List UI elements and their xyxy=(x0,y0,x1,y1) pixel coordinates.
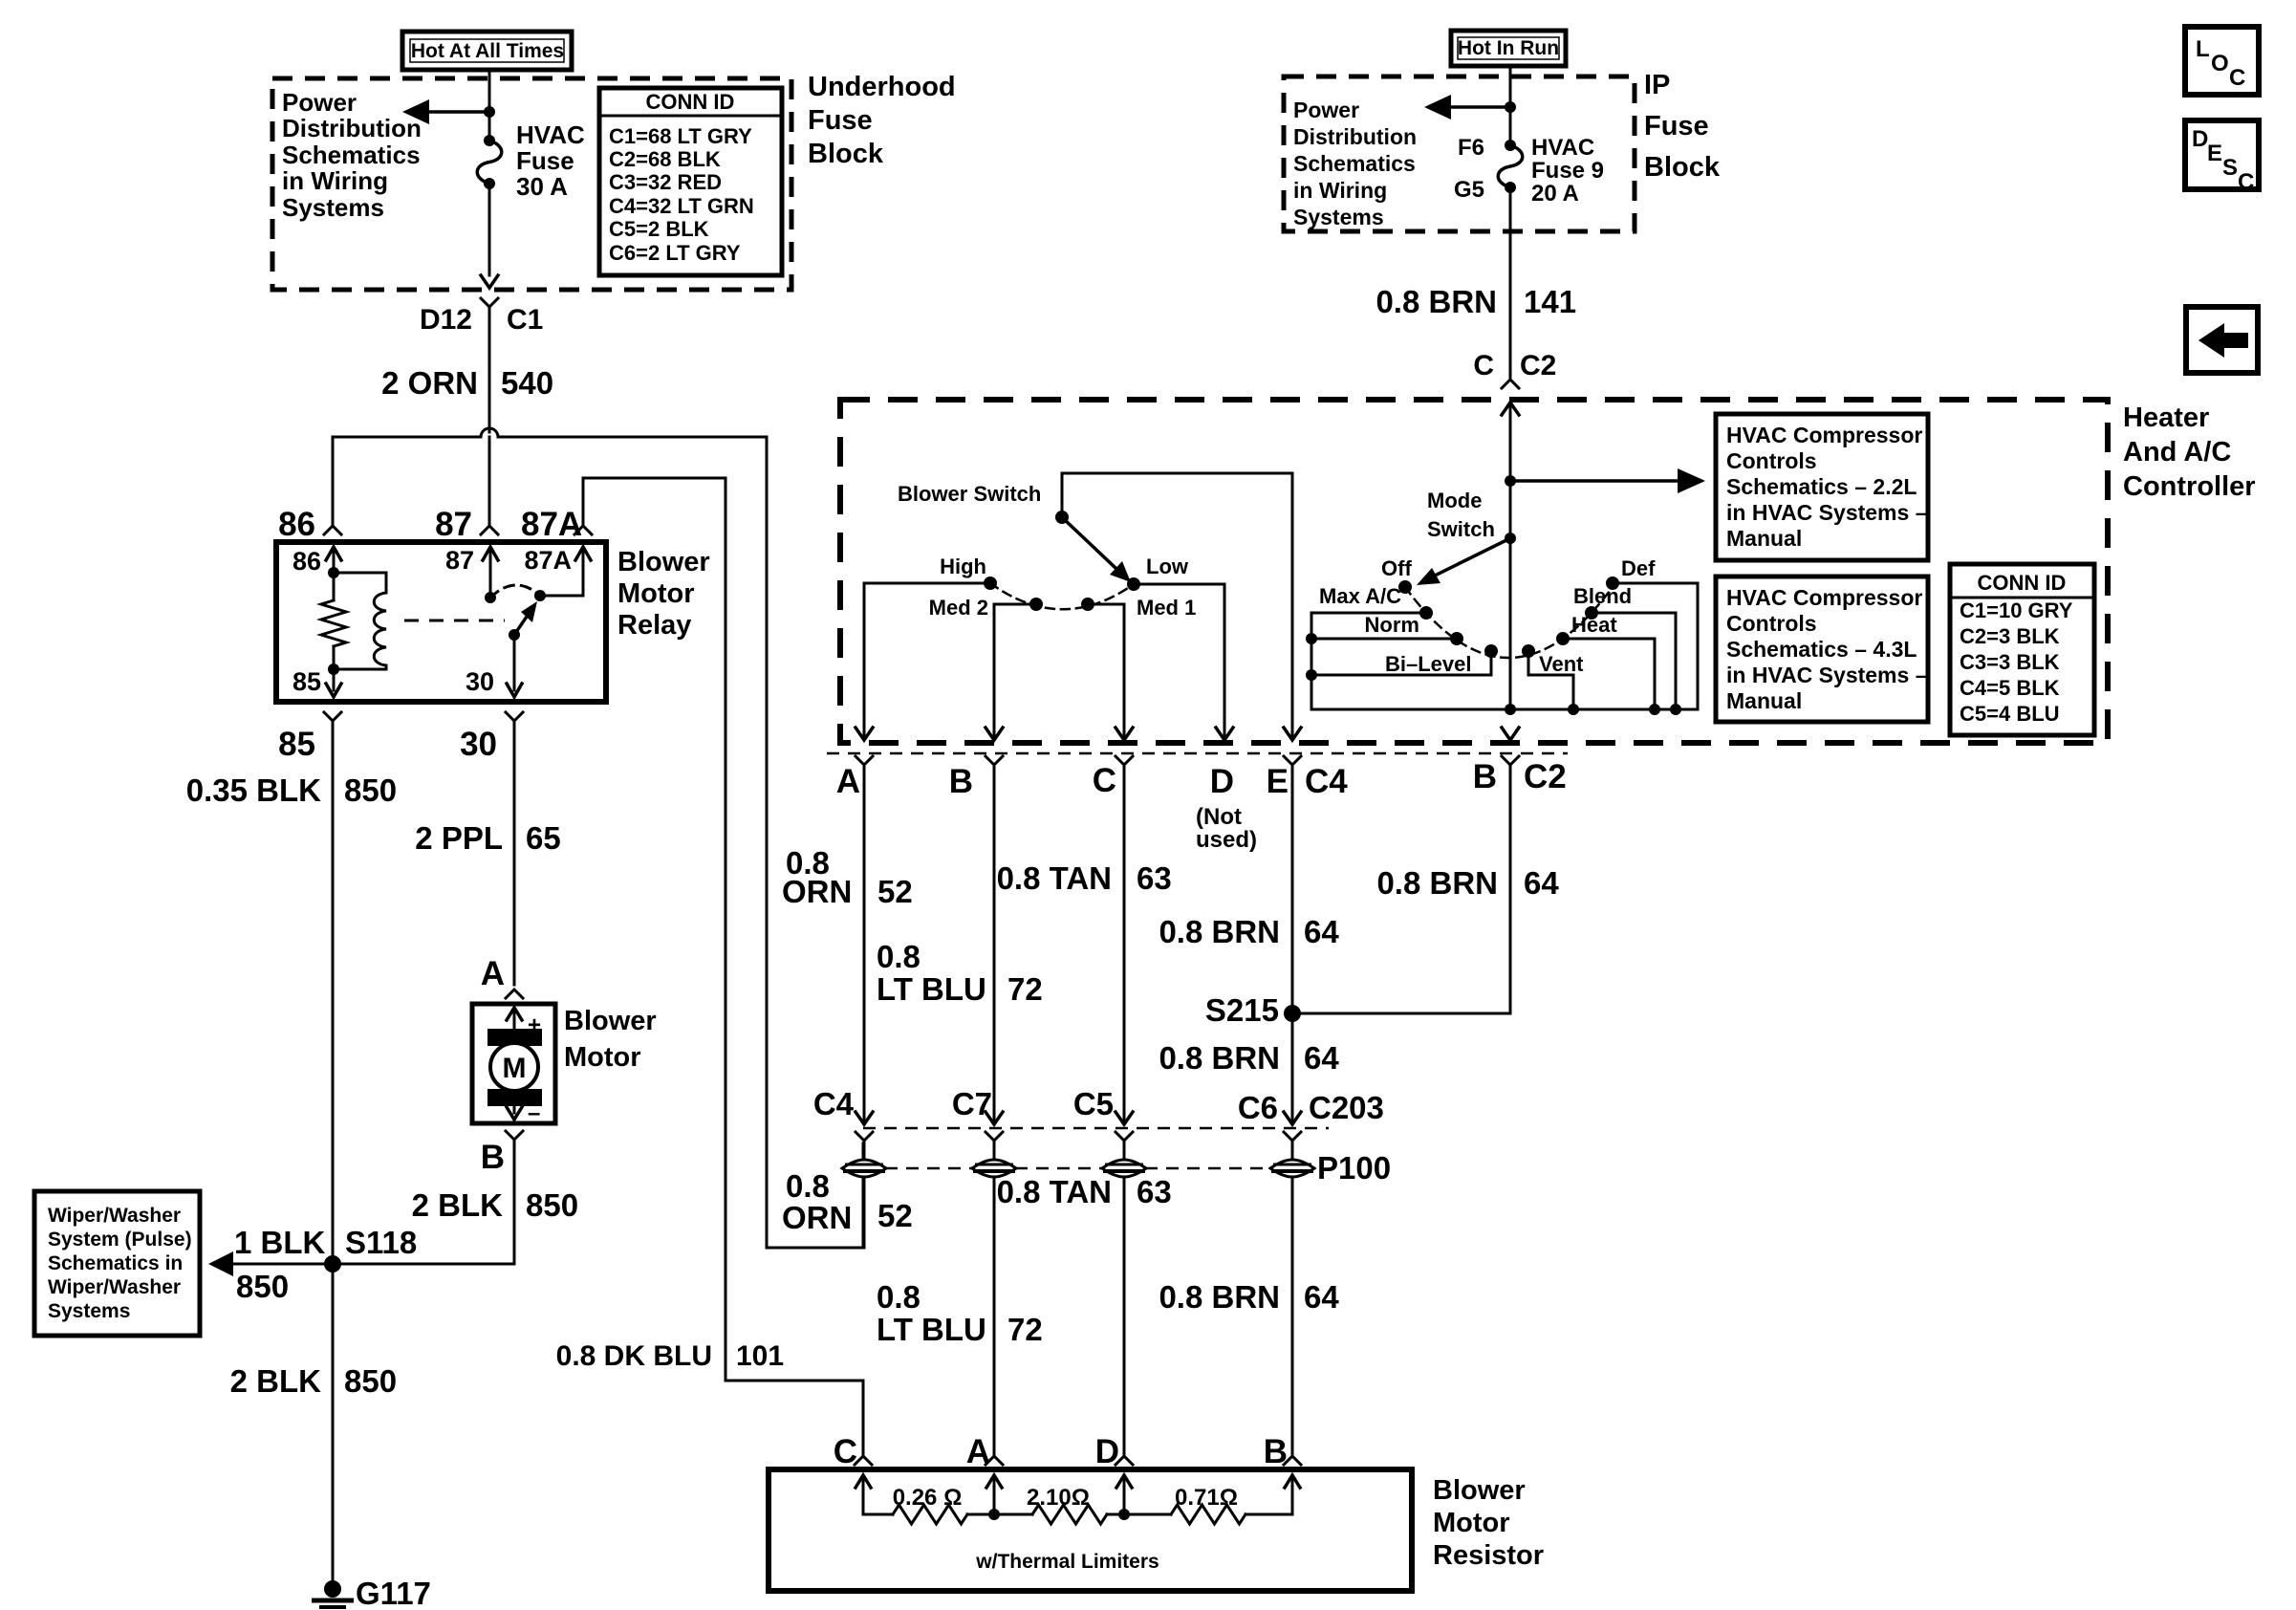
svg-text:Power: Power xyxy=(282,88,357,117)
svg-text:in HVAC Systems –: in HVAC Systems – xyxy=(1726,663,1928,687)
svg-text:M: M xyxy=(503,1053,527,1084)
junction Heat xyxy=(1649,704,1660,715)
svg-text:P100: P100 xyxy=(1317,1150,1391,1186)
svg-text:87: 87 xyxy=(435,506,472,543)
wire 87A contact to pin xyxy=(540,551,583,596)
svg-text:101: 101 xyxy=(736,1340,784,1372)
svg-text:Fuse: Fuse xyxy=(1644,111,1709,141)
svg-text:Bi–Level: Bi–Level xyxy=(1385,652,1472,676)
svg-text:C2=68 BLK: C2=68 BLK xyxy=(609,147,721,171)
wire Blend xyxy=(1592,613,1676,709)
wire TAN to resistor D xyxy=(1123,1177,1126,1457)
svg-text:B: B xyxy=(949,763,973,800)
svg-text:C2: C2 xyxy=(1520,350,1556,381)
svg-text:S118: S118 xyxy=(345,1225,417,1260)
connector pin B xyxy=(986,756,1003,765)
svg-text:30: 30 xyxy=(460,726,497,763)
connector row C4 (thin dashed) xyxy=(827,752,1568,755)
svg-text:in Wiring: in Wiring xyxy=(282,166,388,195)
wire 2 PPL 65 xyxy=(513,721,516,985)
wire DK BLU to resistor pin C xyxy=(726,1381,863,1457)
svg-text:B: B xyxy=(1264,1433,1288,1470)
label box "Hot At All Times" xyxy=(402,32,572,70)
contact Off xyxy=(1398,580,1412,594)
junction xyxy=(1306,669,1317,681)
svg-text:0.8 BRN: 0.8 BRN xyxy=(1159,1279,1280,1315)
junction Blend xyxy=(1670,704,1681,715)
table CONN ID (controller) xyxy=(1950,564,2094,735)
svg-text:E: E xyxy=(1267,763,1289,800)
svg-text:0.26 Ω: 0.26 Ω xyxy=(893,1485,963,1511)
svg-text:S: S xyxy=(2222,155,2238,181)
svg-text:Motor: Motor xyxy=(564,1042,641,1073)
svg-text:D: D xyxy=(1095,1433,1119,1470)
wire Norm xyxy=(1311,638,1457,641)
arrowhead at controller edge (B C2) xyxy=(1502,728,1519,740)
arrow to power distribution (IP) xyxy=(1424,95,1510,120)
svg-text:Resistor: Resistor xyxy=(1433,1540,1544,1571)
svg-text:63: 63 xyxy=(1137,1174,1172,1209)
connector at relay pin 87A xyxy=(574,526,592,534)
svg-text:in HVAC Systems –: in HVAC Systems – xyxy=(1726,500,1928,525)
svg-text:And A/C: And A/C xyxy=(2123,437,2231,468)
wire ORN U bottom xyxy=(767,1247,863,1250)
wire 2 BLK 850 to ground xyxy=(332,1264,335,1580)
dashed actuation link xyxy=(404,620,505,622)
svg-text:D12: D12 xyxy=(420,304,472,336)
svg-text:0.8 BRN: 0.8 BRN xyxy=(1375,284,1497,319)
note box HVAC Compressor Controls 4.3L xyxy=(1716,577,1928,722)
svg-text:Distribution: Distribution xyxy=(1293,124,1417,149)
wire BRN to resistor B xyxy=(1291,1177,1294,1457)
svg-text:2 ORN: 2 ORN xyxy=(381,365,478,401)
svg-text:HVAC Compressor: HVAC Compressor xyxy=(1726,423,1922,447)
junction bus to C2 xyxy=(1505,704,1516,715)
wire feed to pin E xyxy=(1291,473,1294,736)
svg-text:Wiper/Washer: Wiper/Washer xyxy=(48,1205,181,1227)
label Blower Motor Resistor xyxy=(1433,1475,1544,1571)
relay switch blade xyxy=(514,601,537,635)
wire 0.8 TAN 63 xyxy=(1123,765,1126,1120)
svg-text:85: 85 xyxy=(292,667,321,696)
IP fuse block (dashed box) xyxy=(1284,76,1635,231)
resistor element 0.26 ohm xyxy=(863,1505,994,1524)
svg-text:Distribution: Distribution xyxy=(282,114,422,142)
svg-text:Blower: Blower xyxy=(1433,1475,1526,1506)
connector at resistor pin A xyxy=(986,1456,1003,1465)
junction coil bottom xyxy=(328,664,339,675)
wire 1 BLK 850 with arrow to wiper system xyxy=(208,1251,333,1276)
svg-text:Vent: Vent xyxy=(1539,652,1584,676)
svg-text:540: 540 xyxy=(501,365,553,401)
contact High xyxy=(984,577,997,590)
svg-text:C3=32 RED: C3=32 RED xyxy=(609,170,722,194)
svg-text:C3=3 BLK: C3=3 BLK xyxy=(1960,650,2060,674)
connector C5 xyxy=(1116,1112,1133,1141)
wire switch feed top xyxy=(1062,472,1292,475)
junction pin A xyxy=(988,1509,1000,1520)
connector C6 / C203 xyxy=(1284,1112,1301,1141)
svg-text:D: D xyxy=(1210,763,1234,800)
svg-text:Fuse: Fuse xyxy=(516,146,574,175)
connector at resistor pin C xyxy=(855,1456,872,1465)
wire to fuse xyxy=(488,112,491,141)
contact Def xyxy=(1606,577,1619,590)
svg-text:C: C xyxy=(2238,169,2254,195)
wire ORN to U xyxy=(863,1177,866,1248)
svg-text:0.8 TAN: 0.8 TAN xyxy=(997,860,1112,896)
contact Norm xyxy=(1450,632,1463,645)
svg-text:Schematics in: Schematics in xyxy=(48,1252,183,1274)
svg-text:Off: Off xyxy=(1381,556,1412,580)
svg-text:CONN ID: CONN ID xyxy=(646,90,735,114)
svg-text:0.8 BRN: 0.8 BRN xyxy=(1376,865,1498,901)
relay box Blower Motor Relay xyxy=(276,542,606,702)
contact Med 1 xyxy=(1081,598,1094,611)
wire ORN down right branch xyxy=(766,437,769,1248)
mode switch contact arc (dashed) xyxy=(1405,587,1613,658)
wire rail to relay pin 86 xyxy=(332,437,335,525)
relay pin 85 internal xyxy=(326,669,341,697)
underhood fuse block (dashed box) xyxy=(272,78,791,290)
junction xyxy=(1306,633,1317,644)
svg-text:2 PPL: 2 PPL xyxy=(415,820,503,856)
svg-text:52: 52 xyxy=(877,1198,913,1233)
wire to fuse 9 xyxy=(1509,107,1512,145)
svg-text:86: 86 xyxy=(292,547,321,576)
svg-text:2 BLK: 2 BLK xyxy=(412,1187,504,1223)
svg-text:0.8 TAN: 0.8 TAN xyxy=(997,1174,1112,1209)
contact Low xyxy=(1127,577,1140,591)
wire S215 jumper xyxy=(1292,1012,1510,1015)
connector at relay pin 30 xyxy=(506,712,523,721)
svg-text:Schematics – 2.2L: Schematics – 2.2L xyxy=(1726,474,1917,499)
svg-text:C: C xyxy=(1093,762,1116,799)
wire High to pin A xyxy=(864,583,990,736)
wire to P100 xyxy=(863,1141,866,1160)
nav box DESC xyxy=(2185,120,2259,195)
svg-text:Schematics – 4.3L: Schematics – 4.3L xyxy=(1726,637,1917,662)
svg-text:0.35 BLK: 0.35 BLK xyxy=(186,772,321,808)
svg-text:20 A: 20 A xyxy=(1531,181,1579,207)
connector row C203 (thin dashed) xyxy=(863,1127,1329,1130)
wire Max A/C xyxy=(1311,612,1426,615)
svg-text:F6: F6 xyxy=(1458,135,1484,161)
svg-text:A: A xyxy=(966,1433,990,1470)
label Blower Motor xyxy=(564,1006,657,1073)
wire 0.8 BRN 141 xyxy=(1509,187,1512,379)
wire bottom bus xyxy=(1311,708,1698,711)
svg-text:Systems: Systems xyxy=(48,1300,130,1322)
svg-text:ORN: ORN xyxy=(782,1200,852,1235)
svg-text:Controls: Controls xyxy=(1726,448,1817,473)
svg-text:Systems: Systems xyxy=(282,193,384,222)
svg-text:C6=2 LT GRY: C6=2 LT GRY xyxy=(609,241,741,265)
svg-text:A: A xyxy=(836,763,860,800)
svg-text:C2: C2 xyxy=(1524,758,1567,795)
arrowhead into controller xyxy=(1502,402,1519,415)
arrowhead at fuse block edge xyxy=(481,275,498,288)
svg-text:0.8 BRN: 0.8 BRN xyxy=(1159,1040,1280,1076)
svg-text:Manual: Manual xyxy=(1726,688,1802,713)
label Heater And A/C Controller xyxy=(2123,402,2256,502)
connector C / C2 xyxy=(1502,380,1519,388)
wire Low to pin D xyxy=(1134,584,1224,736)
arrow to HVAC compressor controls xyxy=(1510,468,1705,493)
svg-text:Switch: Switch xyxy=(1427,517,1495,541)
blower motor M xyxy=(472,1004,555,1126)
connector at relay pin 86 xyxy=(324,526,341,534)
wire from Hot At All Times to node xyxy=(488,70,491,112)
wire feed to blade pivot xyxy=(1061,473,1064,512)
wire LT BLU to resistor A xyxy=(993,1177,996,1457)
svg-text:D: D xyxy=(2192,126,2208,152)
svg-text:850: 850 xyxy=(236,1269,289,1304)
svg-text:850: 850 xyxy=(344,772,397,808)
svg-text:Block: Block xyxy=(1644,152,1721,183)
svg-text:Mode: Mode xyxy=(1427,489,1482,512)
node / junction dot xyxy=(1505,101,1516,113)
fuse HVAC Fuse 9 20 A xyxy=(1498,140,1523,193)
svg-text:w/Thermal Limiters: w/Thermal Limiters xyxy=(975,1551,1159,1573)
svg-text:C: C xyxy=(1473,350,1494,381)
svg-text:C1: C1 xyxy=(507,304,543,336)
connector pin C xyxy=(1116,756,1133,765)
nav box back arrow xyxy=(2186,307,2258,373)
contact Max A/C xyxy=(1419,606,1433,620)
relay pin 87 internal xyxy=(483,547,498,598)
grommet P100 dashed link xyxy=(885,1167,973,1170)
svg-text:C: C xyxy=(834,1433,857,1470)
label Mode Switch xyxy=(1427,489,1495,541)
svg-text:C5=4 BLU: C5=4 BLU xyxy=(1960,702,2060,726)
splice S118 xyxy=(324,1255,341,1273)
svg-text:IP: IP xyxy=(1644,70,1670,100)
wire fuse to connector C1 xyxy=(488,184,491,275)
relay pin 87A internal arrow xyxy=(575,547,591,560)
connector pin E xyxy=(1284,756,1301,765)
svg-text:C4=5 BLK: C4=5 BLK xyxy=(1960,676,2060,700)
svg-text:Def: Def xyxy=(1621,556,1656,580)
note box Wiper/Washer xyxy=(34,1191,200,1336)
svg-text:0.8 BRN: 0.8 BRN xyxy=(1159,914,1280,949)
svg-text:Relay: Relay xyxy=(617,610,691,641)
ground G117 xyxy=(312,1580,354,1607)
connector pin A xyxy=(856,756,873,765)
svg-text:C1=68 LT GRY: C1=68 LT GRY xyxy=(609,124,752,148)
table CONN ID (underhood) xyxy=(599,88,782,275)
connector at resistor pin B xyxy=(1284,1456,1301,1465)
svg-text:C1=10 GRY: C1=10 GRY xyxy=(1960,598,2073,622)
svg-text:Controller: Controller xyxy=(2123,471,2256,502)
note: power distribution schematics (IP) xyxy=(1293,98,1417,229)
label HVAC Fuse 9 20 A xyxy=(1531,135,1604,207)
grommet P100 on ORN wire xyxy=(842,1160,886,1177)
svg-text:Systems: Systems xyxy=(1293,205,1384,229)
mode switch blade arrow xyxy=(1417,538,1510,585)
svg-text:Med 2: Med 2 xyxy=(929,596,988,620)
connector C4 xyxy=(856,1112,873,1141)
relay pin 30 internal xyxy=(507,635,522,697)
note box HVAC Compressor Controls 2.2L xyxy=(1716,414,1928,560)
nav box LOC xyxy=(2185,27,2259,95)
svg-text:Low: Low xyxy=(1146,555,1189,578)
resistor box Blower Motor Resistor xyxy=(769,1469,1412,1591)
svg-text:CONN ID: CONN ID xyxy=(1978,571,2067,595)
svg-text:System (Pulse): System (Pulse) xyxy=(48,1229,192,1251)
contact Vent xyxy=(1522,644,1535,658)
svg-text:64: 64 xyxy=(1524,865,1559,901)
svg-text:0.8: 0.8 xyxy=(786,1168,830,1204)
svg-text:C4=32 LT GRN: C4=32 LT GRN xyxy=(609,194,754,218)
wire Bi-Level xyxy=(1311,651,1491,675)
svg-text:C4: C4 xyxy=(1305,763,1348,800)
wire Med 2 to pin B xyxy=(994,604,1036,736)
svg-text:30 A: 30 A xyxy=(516,172,568,201)
svg-text:Hot In Run: Hot In Run xyxy=(1458,37,1559,59)
wire 0.8 LT BLU 72 xyxy=(993,765,996,1120)
svg-text:C5=2 BLK: C5=2 BLK xyxy=(609,217,709,241)
relay resistor (suppression) xyxy=(321,573,346,669)
svg-text:0.8 DK BLU: 0.8 DK BLU xyxy=(556,1340,712,1372)
svg-text:Block: Block xyxy=(808,139,884,169)
connector D12 / C1 xyxy=(481,298,498,307)
svg-text:Motor: Motor xyxy=(617,578,695,609)
svg-text:High: High xyxy=(940,555,986,578)
label Underhood Fuse Block xyxy=(808,72,956,169)
wire coil bottom rail xyxy=(334,668,386,671)
svg-text:Motor: Motor xyxy=(1433,1508,1510,1538)
connector at relay pin 87 xyxy=(481,526,498,534)
wire coil top rail xyxy=(334,572,386,575)
svg-text:Med 1: Med 1 xyxy=(1137,596,1196,620)
wire to P100 xyxy=(993,1141,996,1160)
wire fuse feed to relay pin 87 xyxy=(488,437,491,525)
svg-text:A: A xyxy=(481,955,505,992)
svg-text:87A: 87A xyxy=(521,506,582,543)
svg-text:C: C xyxy=(2229,65,2245,91)
svg-text:Norm: Norm xyxy=(1365,613,1419,637)
svg-text:63: 63 xyxy=(1137,860,1172,896)
label HVAC Fuse 30 A xyxy=(516,120,585,201)
dashed arc released position xyxy=(490,585,540,598)
wire Med 1 to pin C xyxy=(1088,604,1124,736)
label box "Hot In Run" xyxy=(1451,31,1566,66)
resistor element 0.71 ohm xyxy=(1124,1505,1292,1524)
connector pin B of C2 xyxy=(1502,756,1519,765)
grommet P100 on BRN wire xyxy=(1270,1160,1314,1177)
svg-text:C2=3 BLK: C2=3 BLK xyxy=(1960,624,2060,648)
node / junction dot xyxy=(484,106,495,118)
svg-text:C6: C6 xyxy=(1238,1090,1278,1125)
connector at motor pin A xyxy=(506,990,523,998)
svg-text:Hot At All Times: Hot At All Times xyxy=(411,40,564,62)
svg-text:–: – xyxy=(528,1100,540,1126)
svg-text:HVAC: HVAC xyxy=(1531,135,1594,161)
svg-text:72: 72 xyxy=(1007,971,1043,1007)
contact Med 2 xyxy=(1029,598,1043,611)
arrow to power distribution xyxy=(402,99,489,124)
arrowheads at controller bottom edge xyxy=(856,728,1301,740)
svg-text:ORN: ORN xyxy=(782,874,852,909)
svg-text:Blower: Blower xyxy=(564,1006,657,1036)
svg-text:(Not: (Not xyxy=(1196,804,1242,830)
svg-text:B: B xyxy=(481,1139,505,1176)
svg-text:64: 64 xyxy=(1304,914,1339,949)
svg-text:Power: Power xyxy=(1293,98,1359,122)
svg-text:E: E xyxy=(2207,141,2222,166)
resistor pin arrows internal xyxy=(856,1475,1300,1514)
node / junction dot xyxy=(1505,533,1516,544)
wire 2 ORN 540 xyxy=(488,307,491,432)
contact Heat xyxy=(1556,632,1570,645)
wire 2 BLK 850 motor to splice xyxy=(333,1140,514,1264)
svg-text:HVAC: HVAC xyxy=(516,120,585,149)
connector at relay pin 85 xyxy=(324,712,341,721)
blower switch blade xyxy=(1055,511,1069,524)
svg-text:LT BLU: LT BLU xyxy=(877,971,986,1007)
svg-text:O: O xyxy=(2211,51,2229,76)
svg-text:Heater: Heater xyxy=(2123,402,2209,433)
wire 0.8 BRN 64 right xyxy=(1509,765,1512,1013)
wire rail (ORN net) with hop over vertical xyxy=(333,428,767,437)
relay coil xyxy=(374,573,386,669)
svg-text:Schematics: Schematics xyxy=(282,141,421,169)
svg-text:Fuse 9: Fuse 9 xyxy=(1531,158,1604,184)
svg-text:30: 30 xyxy=(466,667,494,696)
relay pin 86 internal xyxy=(326,547,341,573)
svg-text:65: 65 xyxy=(526,820,561,856)
svg-text:Blend: Blend xyxy=(1573,584,1632,608)
fuse HVAC Fuse 30 A xyxy=(477,135,502,189)
svg-text:141: 141 xyxy=(1524,284,1576,319)
wire from Hot In Run xyxy=(1509,66,1512,107)
svg-text:G117: G117 xyxy=(356,1576,431,1610)
svg-text:used): used) xyxy=(1196,827,1257,853)
svg-text:G5: G5 xyxy=(1454,177,1484,203)
svg-text:Manual: Manual xyxy=(1726,526,1802,551)
svg-text:C7: C7 xyxy=(952,1086,992,1121)
svg-text:64: 64 xyxy=(1304,1040,1339,1076)
svg-text:72: 72 xyxy=(1007,1312,1043,1347)
svg-text:C5: C5 xyxy=(1073,1086,1114,1121)
svg-text:Max A/C: Max A/C xyxy=(1319,584,1401,608)
contact 87A dot xyxy=(534,590,546,601)
svg-text:87: 87 xyxy=(445,546,474,575)
svg-text:Fuse: Fuse xyxy=(808,105,873,136)
svg-text:52: 52 xyxy=(877,874,913,909)
connector at resistor pin D xyxy=(1116,1456,1133,1465)
label Blower Motor Relay xyxy=(617,547,710,641)
wire left bus xyxy=(1310,613,1313,709)
svg-text:1 BLK: 1 BLK xyxy=(234,1225,326,1260)
svg-text:HVAC Compressor: HVAC Compressor xyxy=(1726,585,1922,610)
svg-text:Underhood: Underhood xyxy=(808,72,956,102)
svg-text:0.8: 0.8 xyxy=(877,1279,921,1315)
svg-text:Schematics: Schematics xyxy=(1293,151,1416,176)
svg-text:C4: C4 xyxy=(813,1086,855,1121)
wire Vent xyxy=(1528,651,1573,709)
wire DK BLU vertical xyxy=(725,478,727,1381)
wire 0.35 BLK 850 xyxy=(332,721,335,1264)
svg-text:0.71Ω: 0.71Ω xyxy=(1175,1485,1238,1511)
svg-text:64: 64 xyxy=(1304,1279,1339,1315)
junction coil top xyxy=(328,567,339,578)
svg-text:Controls: Controls xyxy=(1726,611,1817,636)
svg-text:86: 86 xyxy=(278,506,315,543)
svg-text:Wiper/Washer: Wiper/Washer xyxy=(48,1276,181,1298)
label IP Fuse Block xyxy=(1644,70,1721,183)
